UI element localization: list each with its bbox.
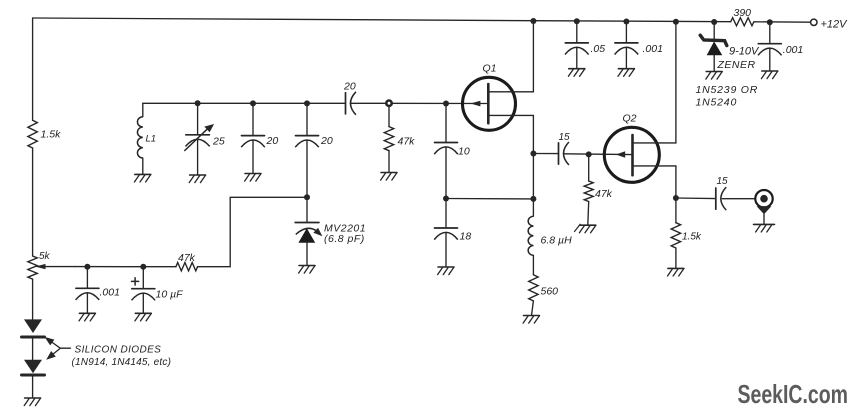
- svg-text:47k: 47k: [178, 252, 196, 264]
- ground 20 first: [245, 174, 261, 182]
- wire between diodes: [32, 339, 34, 360]
- ground output jack: [754, 224, 775, 232]
- capacitor .001 bypass: [615, 22, 663, 69]
- potentiometer 5k: [28, 251, 75, 279]
- svg-text:SILICON DIODES: SILICON DIODES: [75, 345, 162, 356]
- svg-text:560: 560: [541, 286, 559, 298]
- svg-text:+12V: +12V: [821, 18, 849, 30]
- svg-text:.001: .001: [783, 44, 803, 56]
- node varactor top: [304, 194, 310, 200]
- ground .001 right: [761, 71, 777, 79]
- node rail-Q1 drain: [530, 18, 536, 24]
- svg-text:(1N914, 1N4145, etc): (1N914, 1N4145, etc): [72, 357, 172, 368]
- wire left rail middle: [32, 148, 34, 256]
- ground 18: [438, 267, 454, 275]
- node rail-zener: [711, 19, 717, 25]
- svg-text:1N5239 OR: 1N5239 OR: [696, 84, 759, 96]
- zener 1N5239: [696, 22, 761, 109]
- resistor 47k tank: [384, 106, 415, 173]
- node rail-.001 right: [767, 19, 773, 25]
- wire left rail upper: [32, 18, 34, 120]
- svg-text:1N5240: 1N5240: [696, 97, 738, 109]
- svg-text:47k: 47k: [398, 136, 416, 148]
- capacitor 15 coupling: [559, 132, 571, 165]
- node rail-.05: [574, 18, 580, 24]
- capacitor 10: [434, 104, 470, 199]
- node rail-Q2 drain: [673, 19, 679, 25]
- svg-text:25: 25: [212, 135, 225, 147]
- diode D1 silicon: [22, 319, 45, 337]
- ground L1: [134, 174, 150, 182]
- wire +12V top rail: [33, 18, 731, 22]
- inductor L1: [137, 103, 156, 174]
- wire 47k to varactor node: [198, 197, 307, 266]
- svg-text:20: 20: [343, 81, 356, 93]
- capacitor 25 variable: [185, 103, 225, 175]
- wire wiper line: [75, 266, 176, 268]
- ground .001 lower: [79, 313, 95, 321]
- wire series cap to Q1 gate: [350, 102, 488, 104]
- node tank-20a: [250, 100, 256, 106]
- svg-text:390: 390: [734, 7, 752, 19]
- inductor 6.8uH: [528, 199, 580, 275]
- node ring tank-47k: [386, 101, 391, 106]
- node wiper-.001: [84, 264, 90, 270]
- wire rail to +12V terminal: [754, 21, 811, 23]
- svg-text:(6.8 pF): (6.8 pF): [324, 233, 365, 245]
- svg-text:15: 15: [559, 132, 571, 143]
- capacitor 18: [434, 199, 471, 268]
- svg-text:5k: 5k: [39, 251, 51, 262]
- node Q2 source: [673, 195, 679, 201]
- ground 560: [523, 316, 539, 324]
- ground .05: [568, 69, 584, 77]
- svg-text:6.8 µH: 6.8 µH: [541, 235, 573, 247]
- ground 1.5k right: [668, 268, 684, 276]
- ground 47k Q2: [579, 225, 595, 233]
- svg-text:18: 18: [460, 231, 472, 243]
- varactor MV2201: [295, 197, 366, 265]
- wire source to output cap: [676, 197, 716, 200]
- svg-text:.001: .001: [100, 287, 120, 299]
- wire source junction to cap15: [533, 153, 558, 155]
- node source-15: [530, 151, 536, 157]
- svg-text:20: 20: [266, 135, 279, 147]
- diode D2 silicon: [22, 360, 45, 375]
- capacitor 15 output: [716, 176, 728, 210]
- capacitor .001 right: [758, 22, 803, 71]
- node wiper-10uF: [140, 264, 146, 270]
- svg-text:10 µF: 10 µF: [156, 289, 184, 301]
- node source-18line: [530, 196, 536, 202]
- capacitor 20 first: [241, 103, 278, 173]
- svg-text:15: 15: [717, 176, 729, 187]
- resistor 560: [529, 275, 558, 316]
- ground 10uF: [135, 313, 151, 321]
- svg-text:47k: 47k: [595, 188, 613, 200]
- wire cap15 to Q2 gate: [564, 153, 632, 156]
- resistor 390: [731, 7, 754, 26]
- wire diode to ground: [32, 377, 34, 398]
- svg-text:ZENER: ZENER: [717, 59, 756, 71]
- ground varactor: [299, 266, 315, 274]
- svg-text:L1: L1: [146, 134, 157, 145]
- node Q2 gate-47k: [586, 151, 592, 157]
- connector output jack: [755, 190, 772, 224]
- svg-text:Q2: Q2: [623, 113, 637, 125]
- node rail-.001: [623, 19, 629, 25]
- wire Q2 source: [633, 166, 676, 223]
- wire Q2 drain: [633, 22, 676, 143]
- terminal +12V: [811, 18, 849, 30]
- capacitor 20 series: [343, 81, 356, 115]
- svg-text:9-10V: 9-10V: [729, 46, 760, 58]
- resistor 47k wiper: [176, 252, 198, 271]
- svg-text:SeekIC.com: SeekIC.com: [738, 379, 849, 409]
- resistor 1.5k left: [28, 120, 61, 148]
- resistor 1.5k right: [671, 223, 702, 269]
- wire left rail lower: [32, 279, 34, 320]
- svg-text:20: 20: [320, 135, 333, 147]
- ground 25: [189, 175, 205, 183]
- ground zener: [706, 72, 722, 80]
- resistor 47k Q2 gate: [584, 157, 612, 225]
- capacitor 10uF electrolytic: [132, 267, 184, 314]
- svg-text:.001: .001: [643, 43, 663, 55]
- wire Q1 source: [488, 115, 533, 198]
- transistor Q2: [604, 113, 659, 183]
- svg-text:1.5k: 1.5k: [682, 232, 702, 243]
- wire Q1 drain: [488, 21, 533, 92]
- transistor Q1: [463, 63, 516, 131]
- node tank-25: [195, 100, 201, 106]
- node gate-10: [443, 101, 449, 107]
- wire tank node: [143, 102, 346, 104]
- capacitor 20 second: [295, 103, 333, 197]
- node cap18 top: [443, 196, 449, 202]
- watermark SeekIC.com: [738, 379, 849, 409]
- svg-text:.05: .05: [591, 43, 606, 55]
- ground left rail: [24, 398, 40, 406]
- wire output cap to jack: [722, 198, 755, 200]
- svg-text:10: 10: [458, 146, 470, 158]
- node tank-20b: [304, 100, 310, 106]
- wire source to cap18: [446, 198, 533, 200]
- capacitor .001 lower: [76, 267, 120, 314]
- annotation silicon diodes: [45, 337, 172, 368]
- svg-text:1.5k: 1.5k: [41, 129, 62, 141]
- ground .001 bypass: [618, 69, 634, 77]
- ground 47k tank: [381, 173, 397, 181]
- capacitor .05: [565, 21, 605, 68]
- svg-text:Q1: Q1: [483, 63, 497, 75]
